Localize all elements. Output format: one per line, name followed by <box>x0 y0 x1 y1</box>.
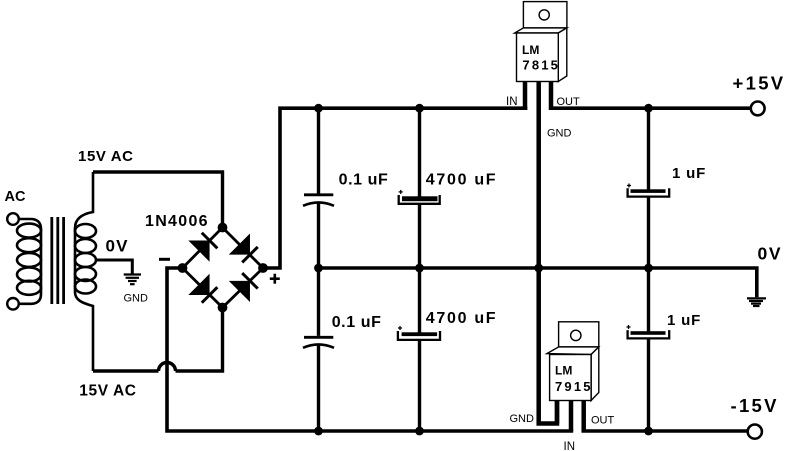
svg-text:AC: AC <box>5 189 26 205</box>
primary terminal bottom <box>7 298 19 310</box>
wire minus node to bottom rail <box>167 268 573 431</box>
node left <box>178 263 188 273</box>
svg-text:7915: 7915 <box>555 379 593 394</box>
svg-text:IN: IN <box>506 96 518 108</box>
svg-text:7815: 7815 <box>522 58 560 73</box>
wire plus node to top rail <box>263 108 527 268</box>
terminal -15V <box>748 425 762 439</box>
svg-text:OUT: OUT <box>591 415 615 427</box>
node bottom rail C6 <box>644 427 653 436</box>
pin GND <box>539 82 557 424</box>
body side face <box>558 28 567 82</box>
wire 0V rail <box>319 268 757 297</box>
svg-text:GND: GND <box>510 413 535 425</box>
ground right <box>747 298 766 306</box>
diode D1 top-left <box>188 230 220 262</box>
minus label <box>159 258 170 261</box>
wire center tap 0V <box>96 260 132 274</box>
ground center tap <box>124 275 141 285</box>
svg-text:1 uF: 1 uF <box>667 312 701 329</box>
capacitor C4 4700uF bottom <box>418 268 421 334</box>
capacitor C2 0.1uF bottom <box>317 268 320 336</box>
pin OUT <box>549 82 554 111</box>
svg-text:0.1 uF: 0.1 uF <box>332 314 382 331</box>
svg-text:15V AC: 15V AC <box>78 148 134 165</box>
node 0V rail C3 <box>415 264 424 273</box>
node top rail C5 <box>644 104 653 113</box>
node top rail C1 <box>314 104 323 113</box>
secondary winding <box>75 172 93 371</box>
tab <box>523 2 567 28</box>
svg-text:OUT: OUT <box>557 96 581 108</box>
primary terminal top <box>7 213 19 225</box>
capacitor C6 1uF bottom <box>647 268 650 333</box>
pin IN <box>569 401 574 432</box>
wire top-right rail <box>549 106 751 110</box>
diode D2 top-right <box>229 233 261 265</box>
svg-text:GND: GND <box>124 293 149 305</box>
node right <box>258 263 268 273</box>
body front face <box>550 355 592 401</box>
body front face <box>517 33 559 82</box>
regulator U1 LM7815 <box>506 2 580 424</box>
tab <box>559 322 599 347</box>
node top rail C3 <box>415 104 424 113</box>
node bottom rail C2 <box>314 427 323 436</box>
diode D3 bottom-left <box>188 274 220 306</box>
node top <box>218 223 228 233</box>
capacitor C3 4700uF top <box>418 108 421 199</box>
svg-text:4700 uF: 4700 uF <box>426 172 498 189</box>
wire bottom-right rail <box>582 429 748 433</box>
node bottom rail C4 <box>415 427 424 436</box>
svg-text:-15V: -15V <box>731 395 779 416</box>
svg-text:1 uF: 1 uF <box>672 165 706 182</box>
capacitor C1 0.1uF top <box>317 108 320 193</box>
terminal +15V <box>751 102 765 116</box>
svg-text:GND: GND <box>547 128 572 140</box>
bridge wires <box>183 228 264 308</box>
node 0V rail C1 <box>314 264 323 273</box>
svg-text:+15V: +15V <box>733 73 786 94</box>
body top face <box>547 347 599 355</box>
svg-text:IN: IN <box>564 441 576 451</box>
svg-text:LM: LM <box>555 364 572 378</box>
diode D4 bottom-right <box>229 270 261 302</box>
node bottom <box>218 303 228 313</box>
transformer T1 <box>5 172 97 371</box>
pin OUT <box>581 401 586 432</box>
svg-text:0V: 0V <box>758 244 783 264</box>
plus label <box>270 274 280 284</box>
primary winding <box>19 219 41 304</box>
svg-text:1N4006: 1N4006 <box>145 213 209 230</box>
core <box>50 217 53 304</box>
pin IN <box>523 82 528 111</box>
svg-text:15V AC: 15V AC <box>79 382 136 399</box>
wire 15V AC bottom with hop <box>176 308 223 372</box>
regulator U2 LM7915 <box>510 322 615 451</box>
capacitor C5 1uF top <box>647 108 650 191</box>
wire 15V AC top <box>93 172 223 228</box>
node 0V rail C5 <box>644 264 653 273</box>
svg-text:4700 uF: 4700 uF <box>426 310 498 327</box>
pin GND stub <box>555 401 560 424</box>
body side face <box>591 347 599 401</box>
svg-text:LM: LM <box>522 43 539 57</box>
svg-text:0V: 0V <box>106 237 129 256</box>
node 0V rail GND legs <box>534 264 543 273</box>
body top face <box>515 28 567 33</box>
svg-text:0.1 uF: 0.1 uF <box>339 172 389 189</box>
